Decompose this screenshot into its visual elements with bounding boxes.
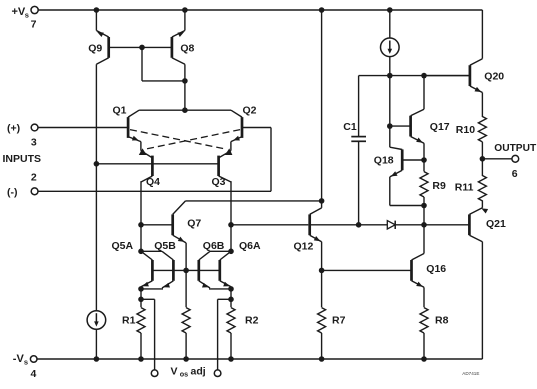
svg-text:Q2: Q2 [243,104,257,116]
svg-text:Q5A: Q5A [112,240,134,252]
svg-text:R2: R2 [245,315,259,327]
svg-text:4: 4 [30,368,36,380]
svg-text:C1: C1 [343,121,357,133]
svg-text:R11: R11 [455,182,474,194]
svg-text:Q16: Q16 [426,263,446,275]
svg-text:2: 2 [31,171,37,183]
svg-text:INPUTS: INPUTS [3,153,42,165]
svg-text:Q5B: Q5B [154,240,176,252]
svg-text:R1: R1 [122,315,136,327]
svg-text:V: V [171,365,178,377]
svg-text:OUTPUT: OUTPUT [494,143,537,154]
svg-text:os: os [180,370,188,379]
svg-text:Q18: Q18 [374,154,394,166]
svg-text:adj: adj [191,365,206,377]
svg-text:6: 6 [512,168,518,180]
svg-text:R8: R8 [435,314,449,326]
svg-text:Q8: Q8 [180,43,194,55]
svg-text:Q17: Q17 [430,121,450,133]
svg-text:R9: R9 [432,180,446,192]
svg-text:Q12: Q12 [294,240,314,252]
svg-text:Q9: Q9 [88,43,102,55]
svg-text:Q3: Q3 [212,176,226,188]
svg-text:3: 3 [31,136,37,148]
svg-text:Q20: Q20 [484,70,504,82]
svg-text:Q6B: Q6B [203,240,225,252]
svg-text:R10: R10 [456,124,475,136]
svg-text:(-): (-) [7,186,18,198]
svg-text:7: 7 [31,18,37,30]
svg-text:Q7: Q7 [187,218,201,230]
svg-text:(+): (+) [7,122,20,134]
svg-text:-V: -V [13,353,25,365]
svg-text:s: s [25,10,29,19]
svg-text:R7: R7 [332,314,346,326]
svg-text:AD741E: AD741E [462,371,479,376]
svg-text:+V: +V [12,6,26,18]
svg-text:Q1: Q1 [113,104,127,116]
svg-text:Q21: Q21 [486,218,506,230]
svg-text:Q6A: Q6A [239,240,261,252]
svg-text:Q4: Q4 [146,176,160,188]
svg-text:s: s [24,357,28,366]
